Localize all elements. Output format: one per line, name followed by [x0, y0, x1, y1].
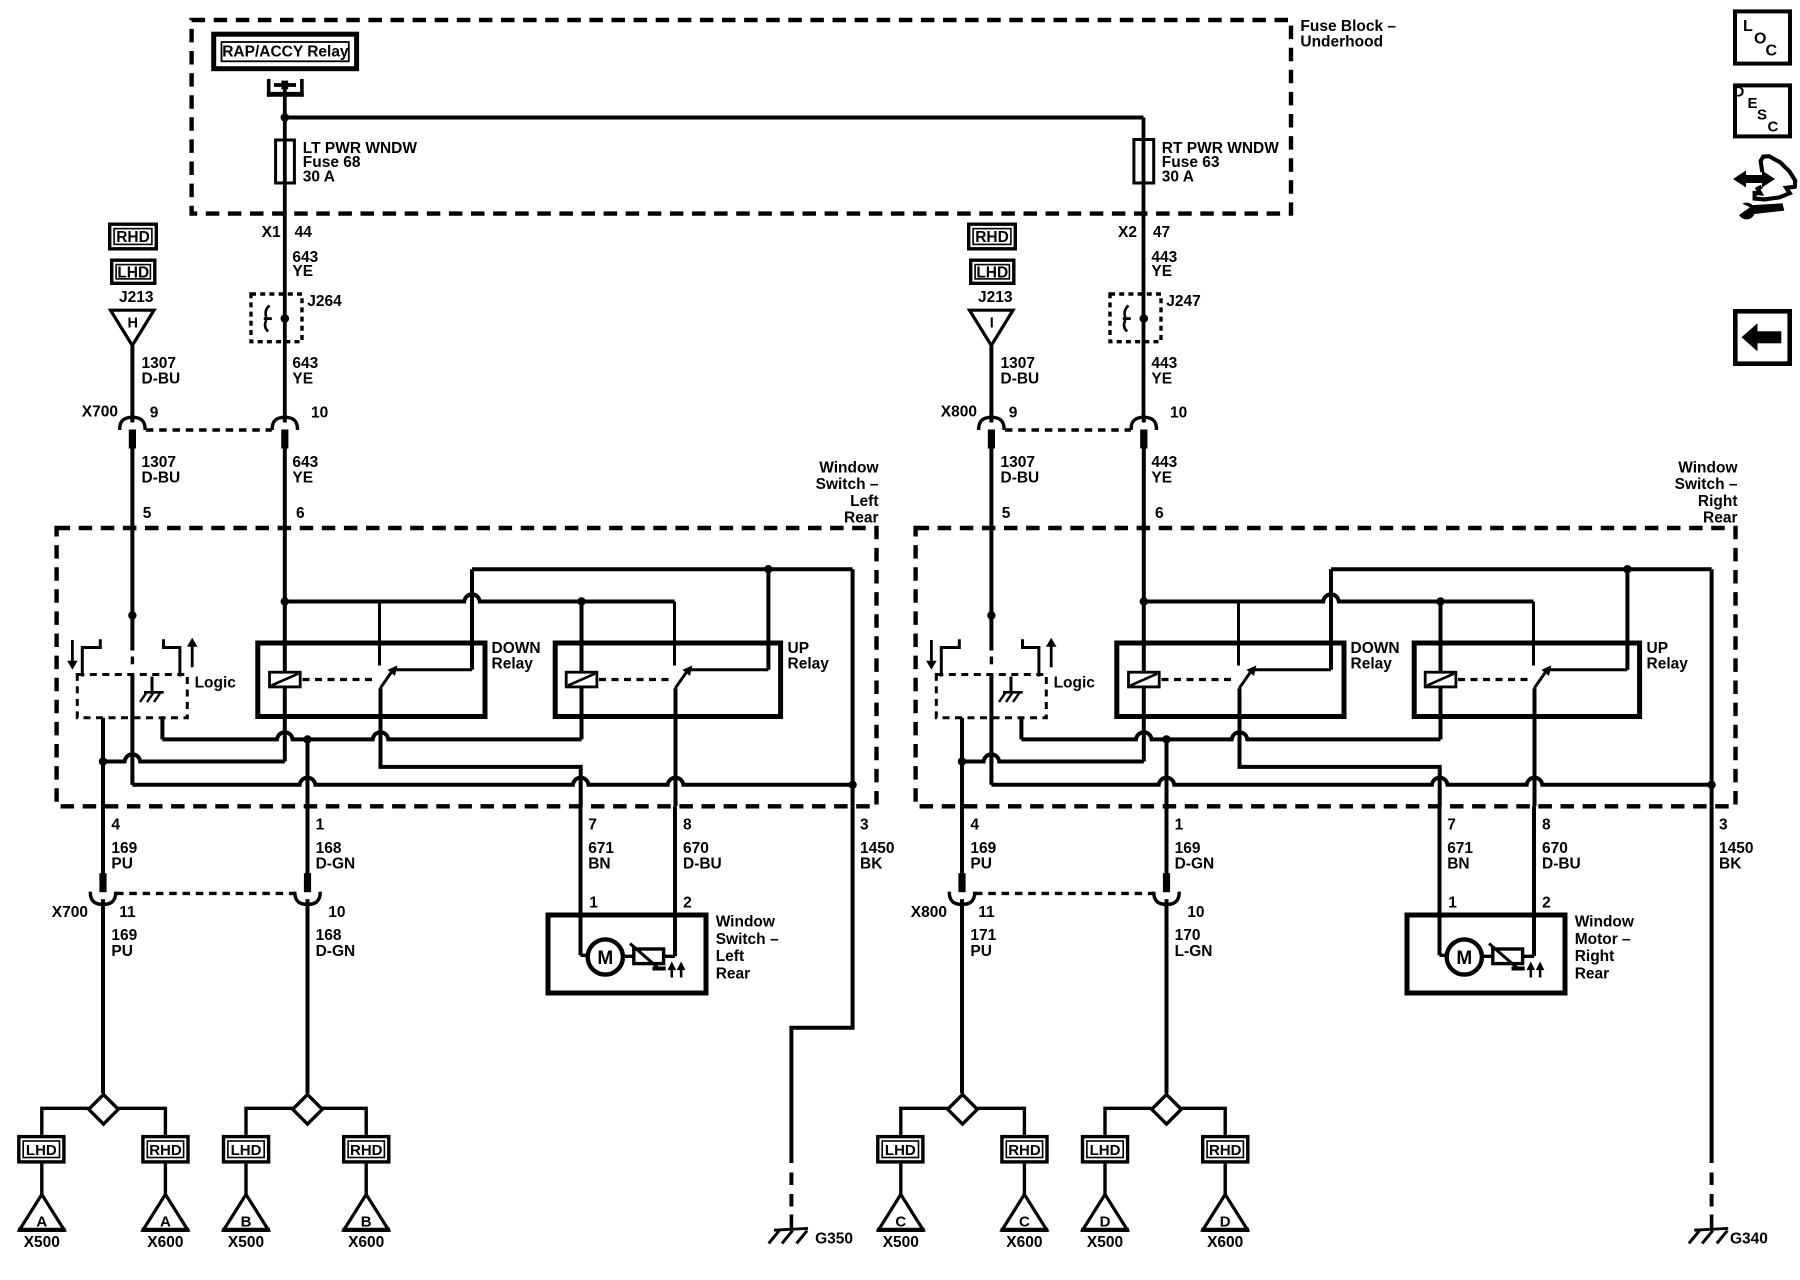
svg-text:LHD: LHD — [1090, 1142, 1121, 1159]
svg-text:D: D — [1734, 84, 1745, 101]
svg-text:YE: YE — [292, 370, 313, 387]
svg-text:8: 8 — [683, 816, 692, 833]
svg-text:3: 3 — [860, 816, 869, 833]
svg-text:D-GN: D-GN — [1175, 855, 1215, 872]
svg-text:RHD: RHD — [350, 1142, 383, 1159]
svg-text:BN: BN — [588, 855, 610, 872]
svg-text:D-BU: D-BU — [683, 855, 722, 872]
svg-text:10: 10 — [328, 904, 345, 921]
svg-text:LHD: LHD — [117, 264, 149, 281]
svg-text:6: 6 — [1155, 505, 1164, 522]
svg-text:Relay: Relay — [788, 655, 830, 672]
svg-text:Window: Window — [1678, 460, 1738, 477]
svg-text:Logic: Logic — [195, 675, 237, 692]
svg-text:Right: Right — [1575, 948, 1615, 965]
svg-text:LHD: LHD — [976, 264, 1008, 281]
svg-text:4: 4 — [970, 816, 979, 833]
svg-text:7: 7 — [588, 816, 597, 833]
svg-text:LHD: LHD — [885, 1142, 916, 1159]
svg-text:6: 6 — [296, 505, 305, 522]
svg-text:Motor –: Motor – — [1575, 931, 1631, 948]
svg-text:J213: J213 — [978, 289, 1013, 306]
svg-text:H: H — [128, 316, 138, 332]
svg-text:J247: J247 — [1166, 293, 1200, 310]
svg-text:LHD: LHD — [231, 1142, 262, 1159]
svg-text:X600: X600 — [147, 1234, 183, 1251]
svg-text:170: 170 — [1175, 927, 1201, 944]
svg-text:Switch –: Switch – — [1675, 476, 1738, 493]
svg-text:X600: X600 — [1207, 1234, 1243, 1251]
svg-text:X800: X800 — [911, 904, 947, 921]
svg-text:D: D — [1220, 1213, 1231, 1230]
svg-text:G350: G350 — [815, 1231, 853, 1248]
svg-text:Rear: Rear — [1575, 965, 1609, 982]
svg-text:Relay: Relay — [1647, 655, 1689, 672]
svg-text:RHD: RHD — [1209, 1142, 1242, 1159]
svg-text:11: 11 — [119, 904, 136, 921]
svg-text:I: I — [990, 316, 994, 332]
svg-text:30 A: 30 A — [303, 169, 335, 186]
svg-text:L: L — [1743, 18, 1753, 35]
svg-text:Relay: Relay — [1351, 655, 1393, 672]
svg-text:Relay: Relay — [492, 655, 534, 672]
svg-text:3: 3 — [1719, 816, 1728, 833]
svg-text:A: A — [36, 1213, 47, 1230]
svg-text:Underhood: Underhood — [1300, 33, 1383, 50]
svg-text:X500: X500 — [883, 1234, 919, 1251]
svg-text:5: 5 — [143, 505, 152, 522]
svg-text:A: A — [160, 1213, 171, 1230]
svg-text:X600: X600 — [1006, 1234, 1042, 1251]
svg-text:PU: PU — [111, 855, 133, 872]
svg-text:PU: PU — [970, 943, 992, 960]
svg-text:9: 9 — [1009, 404, 1018, 421]
svg-text:D: D — [1100, 1213, 1111, 1230]
svg-text:D-BU: D-BU — [1001, 370, 1040, 387]
svg-text:30 A: 30 A — [1162, 169, 1194, 186]
svg-text:RHD: RHD — [1008, 1142, 1041, 1159]
svg-text:X1: X1 — [262, 224, 281, 241]
svg-text:X600: X600 — [348, 1234, 384, 1251]
svg-text:X700: X700 — [52, 904, 88, 921]
svg-text:X2: X2 — [1118, 224, 1137, 241]
svg-text:10: 10 — [1170, 404, 1187, 421]
svg-text:YE: YE — [292, 469, 313, 486]
svg-text:C: C — [1768, 119, 1779, 136]
svg-text:X700: X700 — [82, 403, 118, 420]
svg-text:D-GN: D-GN — [316, 855, 356, 872]
svg-text:BN: BN — [1447, 855, 1469, 872]
svg-text:169: 169 — [111, 927, 137, 944]
svg-text:Left: Left — [716, 948, 744, 965]
svg-text:YE: YE — [1151, 263, 1172, 280]
svg-text:171: 171 — [970, 927, 996, 944]
svg-text:G340: G340 — [1730, 1231, 1768, 1248]
svg-text:RHD: RHD — [975, 229, 1009, 246]
svg-text:YE: YE — [1151, 469, 1172, 486]
svg-text:Window: Window — [716, 914, 776, 931]
svg-text:D-BU: D-BU — [1001, 469, 1040, 486]
svg-text:Switch –: Switch – — [816, 476, 879, 493]
svg-text:C: C — [895, 1213, 906, 1230]
svg-text:1: 1 — [1448, 895, 1457, 912]
svg-text:X500: X500 — [1087, 1234, 1123, 1251]
svg-text:1: 1 — [1175, 816, 1184, 833]
svg-text:C: C — [1766, 43, 1778, 60]
svg-text:Rear: Rear — [844, 509, 878, 526]
svg-text:L-GN: L-GN — [1175, 943, 1213, 960]
svg-text:J264: J264 — [307, 293, 342, 310]
svg-text:YE: YE — [1151, 370, 1172, 387]
svg-text:E: E — [1748, 95, 1758, 112]
svg-text:Window: Window — [1575, 914, 1635, 931]
svg-text:1: 1 — [589, 895, 598, 912]
svg-text:47: 47 — [1153, 224, 1170, 241]
svg-text:11: 11 — [978, 904, 995, 921]
svg-text:Rear: Rear — [716, 965, 750, 982]
svg-text:PU: PU — [111, 943, 133, 960]
svg-text:X800: X800 — [941, 403, 977, 420]
svg-text:RHD: RHD — [116, 229, 150, 246]
svg-text:10: 10 — [1187, 904, 1204, 921]
svg-text:4: 4 — [111, 816, 120, 833]
svg-text:7: 7 — [1447, 816, 1456, 833]
svg-text:168: 168 — [316, 927, 342, 944]
svg-text:M: M — [597, 948, 613, 969]
svg-text:M: M — [1456, 948, 1472, 969]
svg-text:X500: X500 — [24, 1234, 60, 1251]
svg-text:10: 10 — [311, 404, 328, 421]
svg-text:BK: BK — [860, 855, 883, 872]
svg-text:C: C — [1019, 1213, 1030, 1230]
svg-text:YE: YE — [292, 263, 313, 280]
svg-text:8: 8 — [1542, 816, 1551, 833]
svg-text:Window: Window — [819, 460, 879, 477]
svg-text:2: 2 — [683, 895, 692, 912]
svg-text:BK: BK — [1719, 855, 1742, 872]
svg-text:D-GN: D-GN — [316, 943, 356, 960]
svg-text:J213: J213 — [119, 289, 154, 306]
svg-text:Logic: Logic — [1054, 675, 1096, 692]
svg-text:Left: Left — [850, 493, 878, 510]
svg-text:RAP/ACCY Relay: RAP/ACCY Relay — [222, 44, 349, 61]
svg-text:D-BU: D-BU — [142, 370, 181, 387]
svg-text:B: B — [361, 1213, 372, 1230]
svg-text:Right: Right — [1698, 493, 1738, 510]
svg-text:5: 5 — [1002, 505, 1011, 522]
svg-text:2: 2 — [1542, 895, 1551, 912]
svg-text:D-BU: D-BU — [142, 469, 181, 486]
svg-text:44: 44 — [295, 224, 313, 241]
svg-text:Switch –: Switch – — [716, 931, 779, 948]
svg-text:1: 1 — [316, 816, 325, 833]
svg-text:B: B — [241, 1213, 252, 1230]
svg-text:LHD: LHD — [26, 1142, 57, 1159]
svg-text:D-BU: D-BU — [1542, 855, 1581, 872]
svg-text:S: S — [1757, 107, 1767, 124]
svg-text:Rear: Rear — [1703, 509, 1737, 526]
svg-text:PU: PU — [970, 855, 992, 872]
svg-text:RHD: RHD — [149, 1142, 182, 1159]
svg-text:X500: X500 — [228, 1234, 264, 1251]
svg-text:9: 9 — [150, 404, 159, 421]
